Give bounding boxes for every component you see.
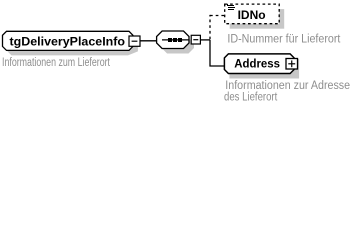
svg-text:Informationen zum Lieferort: Informationen zum Lieferort bbox=[2, 57, 111, 69]
svg-text:Informationen zur Adresse: Informationen zur Adresse bbox=[225, 80, 350, 92]
svg-text:Address: Address bbox=[234, 59, 280, 71]
svg-text:ID-Nummer für Lieferort: ID-Nummer für Lieferort bbox=[227, 34, 341, 46]
svg-text:tgDeliveryPlaceInfo: tgDeliveryPlaceInfo bbox=[10, 37, 125, 49]
svg-text:IDNo: IDNo bbox=[238, 10, 266, 22]
svg-text:des Lieferort: des Lieferort bbox=[224, 91, 278, 103]
